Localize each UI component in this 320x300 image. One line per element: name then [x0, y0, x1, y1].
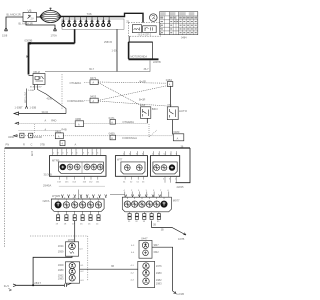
svg-text:1-30B: 1-30B [30, 107, 37, 110]
svg-text:15/8: 15/8 [2, 33, 8, 37]
svg-text:1-30B: 1-30B [28, 90, 34, 92]
svg-text:4108: 4108 [47, 97, 53, 100]
svg-text:FORWNGA: FORWNGA [122, 136, 137, 140]
clock icon circle [150, 14, 158, 22]
approach lamp 1978 [58, 238, 84, 256]
connector row [62, 17, 111, 25]
legend table [160, 12, 198, 35]
module 4 bottom pins [58, 211, 98, 215]
mirror assembly module 4 [43, 199, 105, 211]
svg-text:0484: 0484 [181, 37, 187, 40]
svg-text:R4D: R4D [51, 119, 56, 123]
svg-text:R4B: R4B [62, 128, 67, 132]
svg-text:C: C [31, 142, 33, 146]
svg-text:1978: 1978 [68, 238, 75, 242]
svg-text:0480: 0480 [75, 117, 81, 121]
svg-text:0483: 0483 [173, 130, 179, 134]
module 5 bottom pins [130, 212, 159, 214]
svg-text:-9-2-4 OP-2: -9-2-4 OP-2 [138, 33, 152, 37]
svg-text:AUTO: AUTO [179, 109, 188, 113]
wire module 4 to mirror lamps [74, 221, 76, 242]
relay drop wires [146, 118, 148, 123]
svg-text:4/1B: 4/1B [140, 104, 145, 107]
svg-text:C7B: C7B [30, 151, 34, 156]
svg-text:0471: 0471 [109, 116, 115, 120]
svg-text:NATA: NATA [43, 199, 50, 203]
svg-text:170A: 170A [51, 33, 57, 37]
mirror switch module 2 [115, 156, 147, 177]
right rail to module 3 [176, 148, 191, 183]
svg-text:31/34: 31/34 [42, 110, 49, 114]
svg-text:0447: 0447 [141, 236, 148, 240]
svg-text:3B: 3B [153, 223, 156, 226]
wire 0447 to ground rail [152, 247, 173, 291]
dashed door boundary left [30, 236, 88, 281]
connector 0453 (upper) [68, 95, 99, 103]
svg-text:1-30BT: 1-30BT [15, 107, 24, 110]
svg-text:107B: 107B [178, 237, 184, 241]
drop wire 1-301 [116, 29, 118, 71]
battery V5 [23, 9, 37, 22]
dashed boundary mid-left [61, 74, 63, 110]
svg-text:BL ANCA 3R: BL ANCA 3R [19, 22, 33, 25]
module 1 top pins [53, 149, 101, 156]
mirror assembly module 5 [122, 197, 180, 212]
relay output wires [34, 85, 36, 91]
svg-text:W77: W77 [117, 157, 123, 161]
svg-text:36-7: 36-7 [144, 68, 150, 71]
svg-text:0309B: 0309B [25, 38, 33, 42]
splice bundle [40, 8, 61, 23]
connector 170A [54, 28, 57, 31]
svg-text:85 86 30 87: 85 86 30 87 [30, 87, 42, 89]
left boundary rail [4, 148, 6, 248]
svg-text:31/34B: 31/34B [44, 173, 52, 177]
pin name row [6, 142, 77, 146]
svg-text:1980: 1980 [58, 268, 64, 272]
svg-text:PN: PN [6, 142, 10, 146]
inline connector [65, 283, 72, 287]
svg-text:1982: 1982 [156, 278, 162, 282]
svg-text:FORWARDA: FORWARDA [68, 99, 84, 103]
module box 2 [143, 26, 157, 33]
svg-text:1980: 1980 [156, 271, 162, 275]
module box 1 [132, 25, 141, 33]
svg-text:1983: 1983 [58, 277, 64, 281]
crossing signal wires [98, 82, 167, 106]
svg-text:R: R [23, 142, 25, 146]
svg-text:0TB: 0TB [40, 142, 45, 146]
svg-text:DB-M: DB-M [34, 71, 40, 74]
svg-text:0471: 0471 [90, 76, 97, 80]
relay B4N [140, 104, 157, 119]
svg-text:3L/3: 3L/3 [4, 284, 10, 288]
row R4D [15, 116, 147, 127]
svg-text:3B: 3B [161, 229, 164, 232]
svg-text:B=3R: B=3R [140, 81, 147, 84]
svg-text:5-2/1B: 5-2/1B [176, 292, 184, 296]
ground 31/3 [13, 284, 17, 287]
connector 0471 (upper) [70, 76, 99, 85]
svg-text:A: A [75, 142, 77, 146]
svg-text:2V: 2V [31, 17, 34, 21]
svg-text:29/45A: 29/45A [43, 184, 51, 188]
svg-text:B4N: B4N [152, 107, 158, 111]
wire module 5 to door [152, 221, 186, 235]
svg-text:2583 B: 2583 B [104, 41, 112, 44]
drop wire to 0309B feed [74, 29, 76, 43]
main ground bus [5, 147, 190, 149]
svg-text:0M2: 0M2 [154, 250, 160, 254]
wire battery to splice [37, 16, 41, 18]
wire battery to left [6, 17, 23, 28]
svg-text:0484: 0484 [166, 78, 173, 82]
svg-text:OTHERA: OTHERA [122, 120, 134, 124]
svg-text:1-301: 1-301 [112, 49, 119, 52]
wire into module 4 [78, 190, 80, 200]
feed wire 0309B [29, 42, 75, 44]
wire 31/34 run [19, 113, 66, 115]
relay AUTO [167, 104, 187, 120]
fuse/connector row box [62, 19, 124, 29]
svg-text:3414D: 3414D [34, 135, 42, 139]
svg-text:1959: 1959 [58, 249, 64, 253]
svg-text:3-1FTE5B: 3-1FTE5B [23, 92, 26, 103]
svg-text:9M7: 9M7 [154, 243, 160, 247]
wire lamp cluster link [80, 268, 138, 270]
lamp cluster 19xx left [58, 262, 85, 283]
svg-text:0T1: 0T1 [167, 104, 172, 107]
row 0481/0459/0483 [8, 129, 184, 141]
connector 0484 [166, 78, 173, 87]
svg-text:OTHERA: OTHERA [70, 81, 82, 85]
svg-text:3490: 3490 [8, 135, 15, 139]
wire battery bottom to 170A [26, 22, 55, 29]
row R4B [19, 128, 67, 132]
svg-text:736: 736 [87, 12, 92, 16]
svg-text:28/4T: 28/4T [34, 281, 41, 285]
svg-text:2W45: 2W45 [177, 185, 185, 189]
svg-text:1983: 1983 [156, 282, 162, 286]
ground wiring bottom left [17, 256, 72, 285]
svg-text:0453: 0453 [90, 95, 97, 99]
approach lamp 0447 [131, 236, 159, 258]
mirror switch module 1 [50, 156, 107, 177]
dashed control module enclosure [129, 23, 161, 37]
ground connector 15/8 [5, 28, 8, 31]
svg-text:MOTORONDA: MOTORONDA [131, 55, 148, 58]
link to motor box [128, 36, 130, 42]
mirror switch module 3 [150, 156, 179, 177]
svg-text:220HB: 220HB [153, 61, 161, 64]
svg-text:36-7: 36-7 [89, 68, 95, 71]
svg-text:1934: 1934 [58, 244, 64, 248]
svg-text:0481: 0481 [55, 129, 61, 133]
left branch connector [26, 89, 28, 107]
relay DB-M [29, 71, 46, 85]
module 1 bottom pins [59, 176, 98, 179]
svg-text:0459: 0459 [109, 132, 115, 136]
bus 736 [61, 13, 143, 22]
long wire 36-7 [45, 61, 150, 72]
motor unit box [129, 42, 159, 59]
lamp cluster 19xx right [131, 261, 163, 287]
svg-text:1976: 1976 [156, 264, 162, 268]
svg-text:1909: 1909 [58, 263, 64, 267]
wire 0484 to relay [170, 86, 172, 106]
svg-text:BL ANCA 2R: BL ANCA 2R [7, 14, 21, 17]
svg-text:B=3R: B=3R [139, 99, 146, 102]
svg-text:V5: V5 [28, 9, 32, 13]
svg-text:3B: 3B [111, 265, 114, 268]
svg-text:M977: M977 [173, 198, 180, 202]
